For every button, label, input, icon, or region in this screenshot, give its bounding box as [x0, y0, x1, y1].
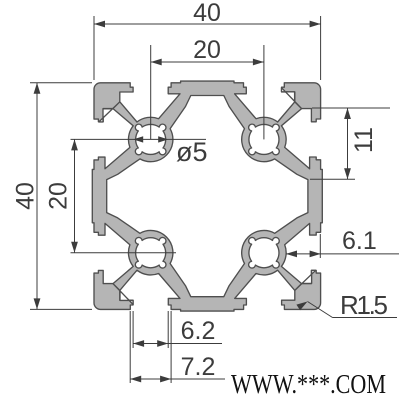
corner notch bottom-right: [295, 270, 316, 290]
svg-text:6.2: 6.2: [181, 317, 216, 345]
svg-text:R1.5: R1.5: [340, 290, 388, 320]
svg-text:7.2: 7.2: [181, 353, 216, 381]
dimension 11 (slot cavity width, right): [312, 107, 390, 109]
dimension 20 (top hole pitch): [150, 45, 152, 139]
dimension 40 (top width): [93, 16, 95, 80]
svg-text:ø5: ø5: [176, 137, 208, 167]
svg-text:20: 20: [45, 182, 73, 210]
svg-text:40: 40: [12, 182, 40, 210]
corner notch top-left: [99, 102, 120, 122]
aluminum extrusion profile body (gray cross-section): [92, 81, 322, 311]
dimension 6.2 (slot neck width, bottom): [132, 311, 134, 348]
svg-text:11: 11: [350, 127, 378, 153]
dimension 7.2 (slot opening width, bottom): [129, 311, 131, 383]
dimension 6.1 (slot depth, right): [319, 234, 321, 258]
svg-text:WWW.***.COM: WWW.***.COM: [231, 369, 386, 399]
svg-text:20: 20: [193, 36, 221, 64]
dimension R1.5 (corner radius leader): [308, 302, 333, 318]
dimension diameter 5 (center hole): [133, 136, 143, 142]
corner notch top-right: [282, 88, 302, 109]
svg-text:6.1: 6.1: [342, 227, 377, 255]
corner notch bottom-left: [113, 284, 133, 305]
dimension 20 (left hole pitch): [71, 138, 207, 140]
dimension 40 (left height): [30, 82, 92, 84]
svg-text:40: 40: [193, 0, 221, 27]
